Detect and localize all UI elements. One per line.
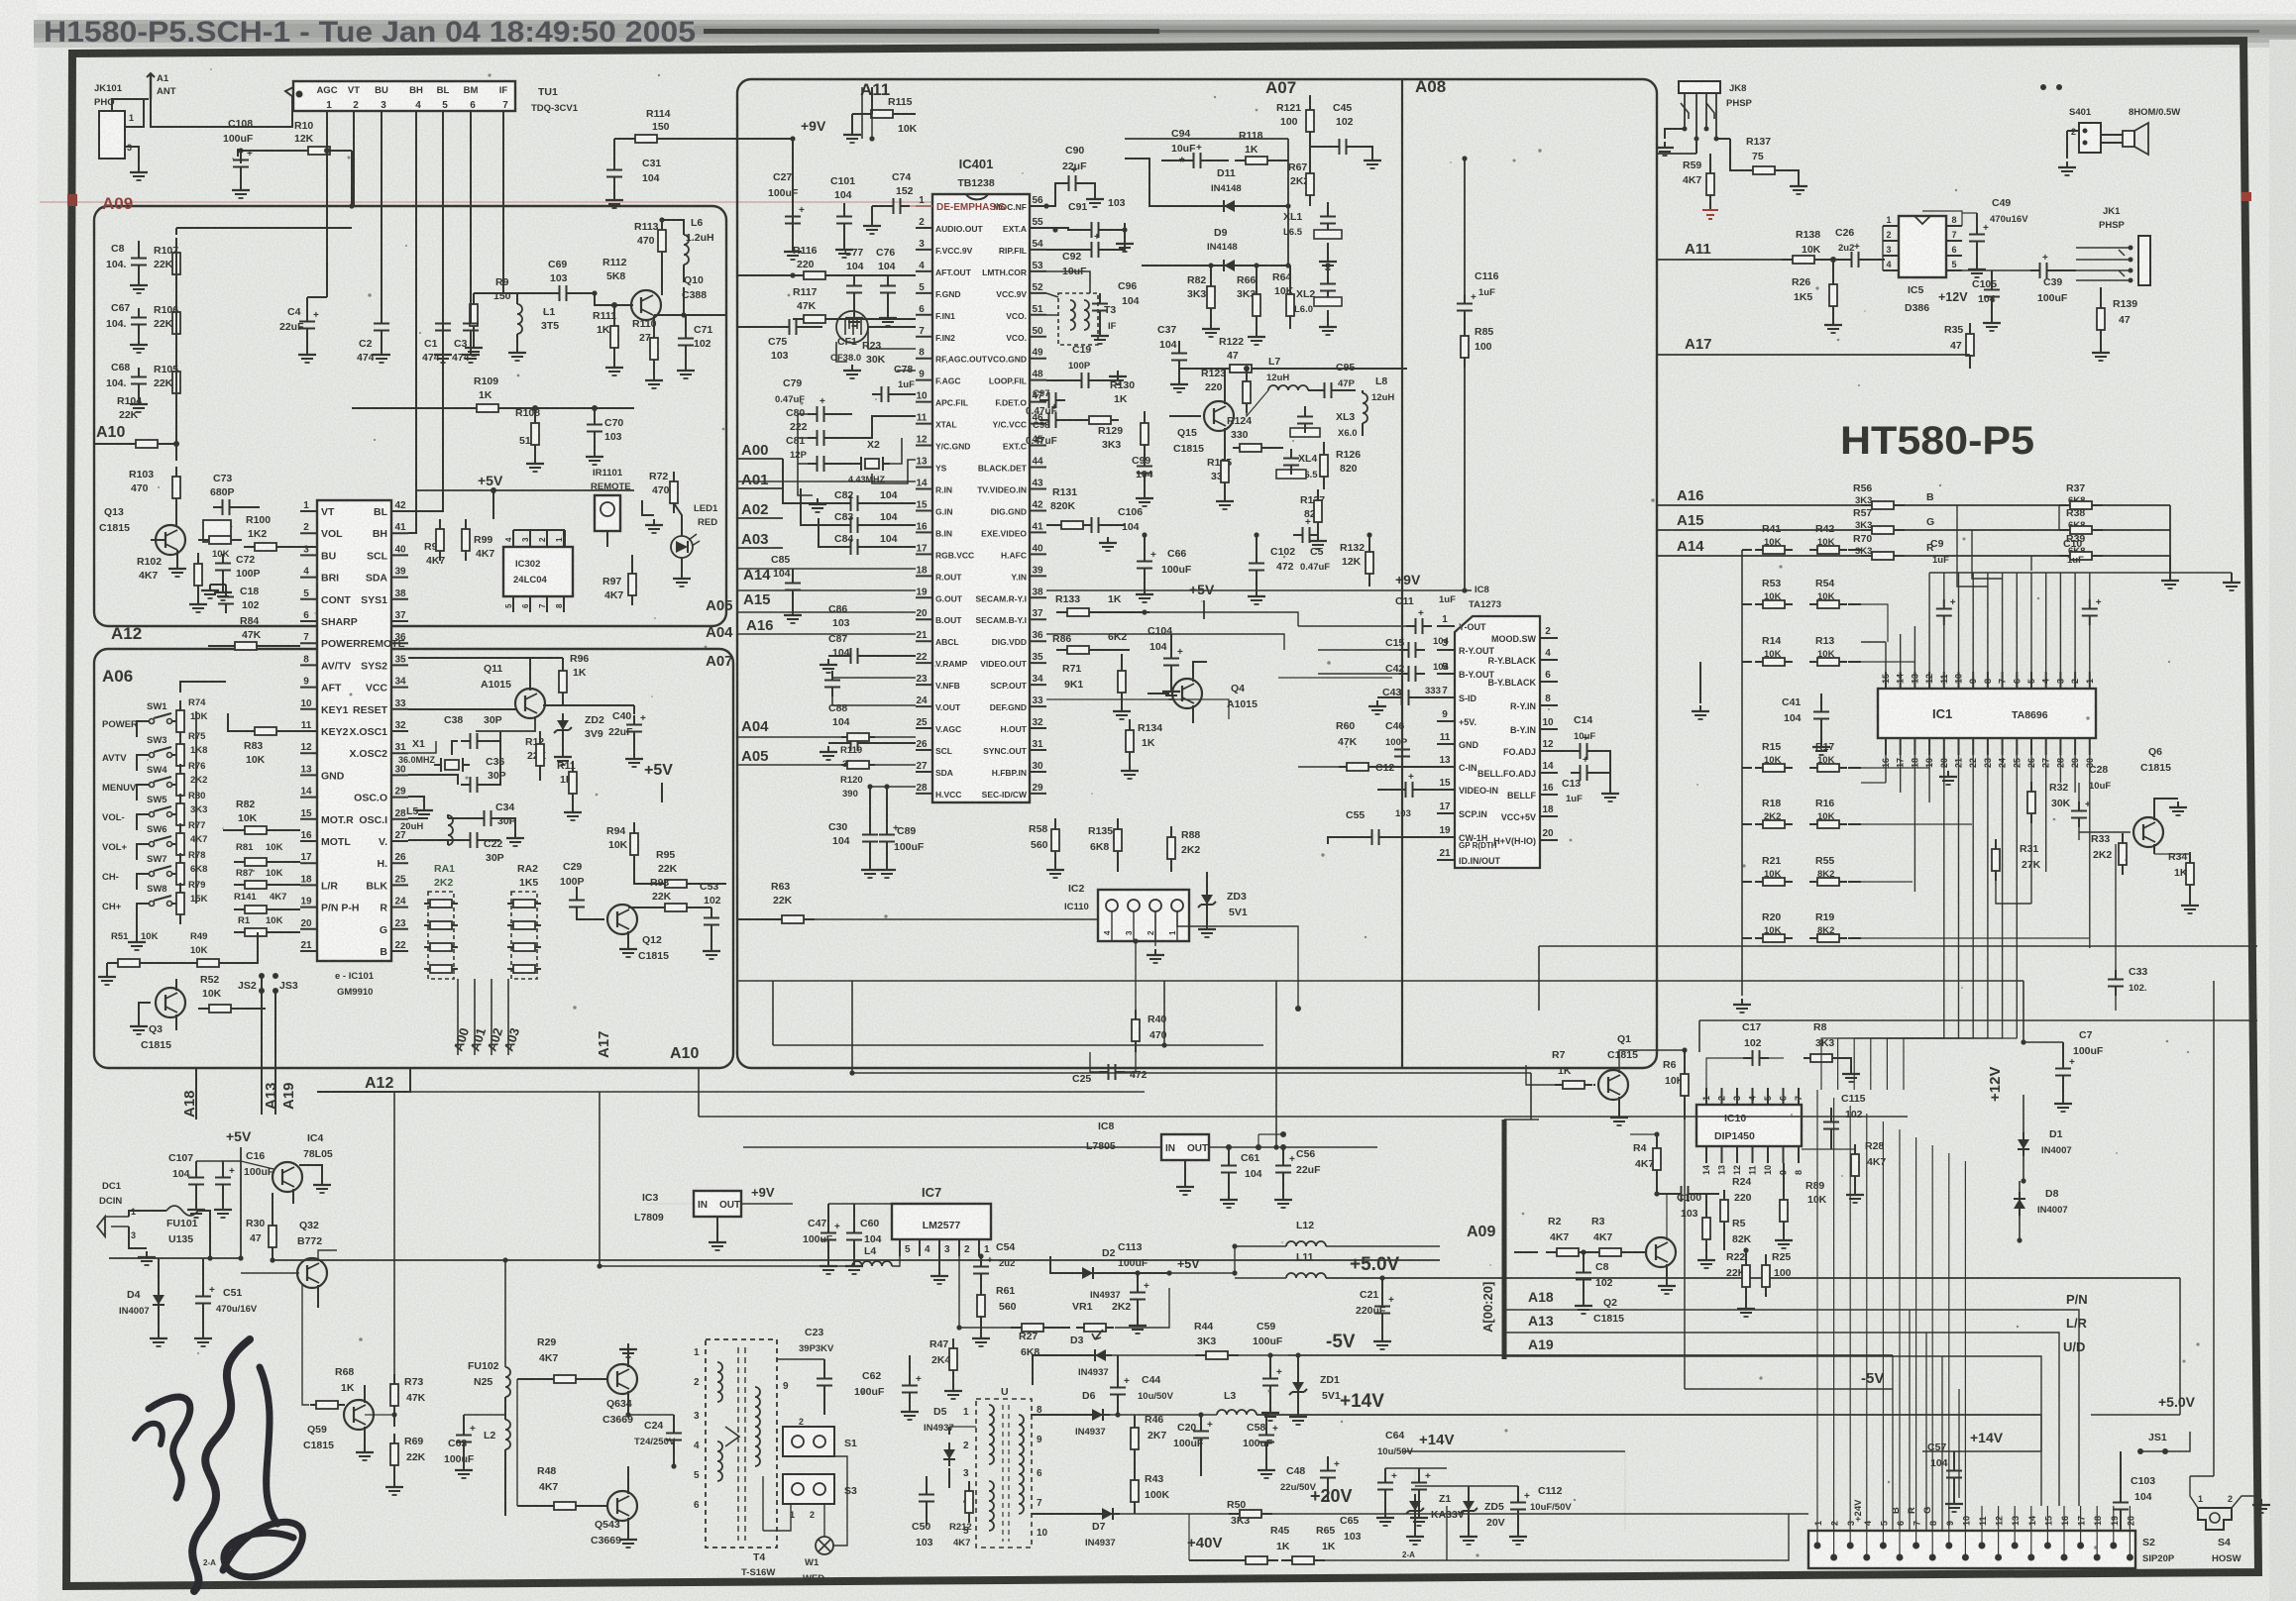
ic IC401 TB1238 box xyxy=(932,194,1030,802)
wire IC1 to S2 drops xyxy=(1821,1038,1944,1090)
scan speckles xyxy=(788,294,791,297)
wire c116 line xyxy=(1046,589,1472,591)
transformer T3 IF xyxy=(1058,293,1098,345)
wire center risers xyxy=(1163,981,1165,1045)
wire IC1 top pin risers xyxy=(1885,642,1887,672)
red scan line A09 xyxy=(40,201,1021,203)
wire IC1 riser top bus xyxy=(1929,572,2232,574)
wire S2 feeds vertical xyxy=(1816,1090,1818,1506)
ic IC10 DIP1450 xyxy=(1696,1105,1802,1146)
wire stray stubs xyxy=(1504,1119,1539,1121)
ic IC5 D386 xyxy=(1899,216,1946,277)
wire lmth xyxy=(1046,271,1090,293)
wire +9V riser xyxy=(792,139,794,248)
ic IC101 GM9910 box xyxy=(317,500,391,961)
ground IC1 pin20 xyxy=(1943,755,1945,768)
wire long rail y1102 left xyxy=(317,1091,410,1093)
wire ic401 to ta1273 feeds xyxy=(1149,612,1298,626)
loop filter parts C97 C98 xyxy=(1039,399,1049,401)
wire bottom rails leftover xyxy=(762,1476,764,1531)
wire ys pin13 xyxy=(737,480,916,482)
ground pin3 xyxy=(938,1256,940,1270)
wire IC1 bottom pin drops xyxy=(1885,755,1887,783)
block A06 keypad rounded box xyxy=(94,649,733,1068)
tuner TU1 box xyxy=(293,81,515,111)
wire keypad gnd xyxy=(136,919,138,936)
wire right edge rails xyxy=(2040,1415,2042,1451)
scan dots xyxy=(2040,84,2046,90)
transformer T4 T-S16W xyxy=(706,1339,777,1548)
ic IC401 pins xyxy=(916,205,932,207)
header gray scan band xyxy=(34,20,2296,46)
wire grid row links xyxy=(1848,604,1888,642)
wire AGC feed xyxy=(326,129,328,151)
ic IC1 pins xyxy=(1885,672,1887,689)
wire audio feed xyxy=(1657,153,1696,155)
wire A09 feed bottom xyxy=(737,980,2023,982)
wire ladder vertical xyxy=(1741,550,1743,996)
wire IC5 out xyxy=(1962,269,2036,271)
switch S1 xyxy=(783,1427,834,1456)
wire VT riser xyxy=(353,129,355,206)
ground pin13 xyxy=(408,797,424,804)
wire long rail y1030 right xyxy=(1699,1019,2257,1021)
wire right stepped bus 1 xyxy=(1539,945,2257,947)
wire IC1 rgb feeds xyxy=(2030,556,2032,571)
wire top right rail xyxy=(1287,139,1289,266)
wire bottom-right vertical risers xyxy=(2213,981,2215,1476)
divider line A07/A08 xyxy=(1401,79,1403,1068)
switch S3 xyxy=(783,1474,834,1504)
ic IC302 24LC04 xyxy=(503,547,573,596)
wire long rail y1083 xyxy=(852,1072,1531,1074)
ic IC1 TA8696 xyxy=(1878,689,2096,738)
block A09/A10 rounded box xyxy=(94,206,726,626)
transformer U xyxy=(976,1399,1032,1548)
handwritten scribble xyxy=(192,1339,250,1591)
junction dots xyxy=(349,203,354,208)
wire Q10 out xyxy=(684,287,726,315)
ic IC101 pins xyxy=(300,510,317,512)
wire right stepped bus set xyxy=(1892,1355,1894,1531)
connector S2 SIP20P xyxy=(1808,1531,2135,1568)
wire ic2 bottom rails xyxy=(1154,911,1156,946)
bus A00:20 heavy xyxy=(1502,1120,1507,1359)
wire left column bus xyxy=(138,241,140,249)
wire B+ rail xyxy=(337,1259,1440,1261)
wire long rail y1127 xyxy=(699,1116,1908,1118)
wire long rail y1055 xyxy=(773,1044,1263,1046)
block A11/A07/A08 center rounded box xyxy=(737,79,1657,1068)
